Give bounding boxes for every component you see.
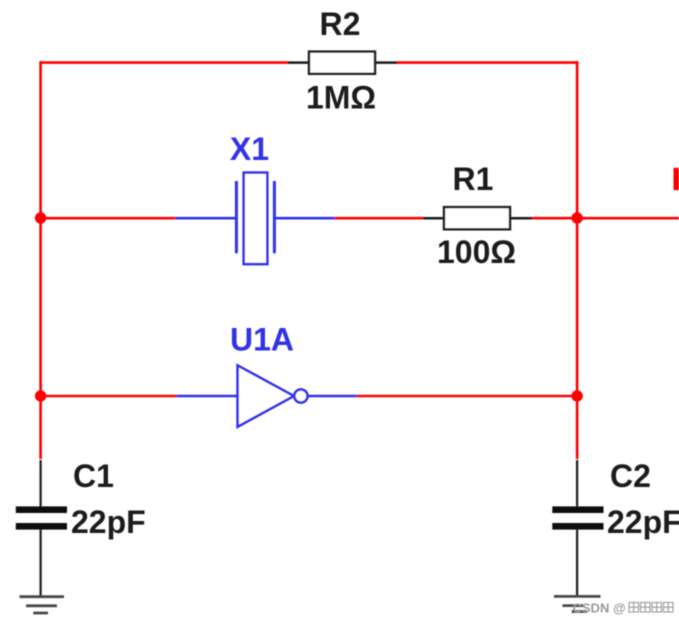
label X1 (230, 131, 269, 167)
wire top-right horizontal (R2 right to right rail) (396, 61, 578, 64)
resistor R2 (288, 52, 397, 74)
svg-text:R1: R1 (453, 161, 494, 197)
wire top-left horizontal (node to R2 left) (40, 61, 290, 64)
wire left vertical rail (39, 61, 42, 459)
svg-text:22pF: 22pF (71, 504, 146, 540)
label R1 (453, 161, 494, 197)
wire middle-left (left rail to X1) (41, 217, 177, 220)
crystal X1 (176, 173, 335, 265)
node junction right-middle (571, 212, 582, 223)
svg-text:R2: R2 (320, 6, 361, 42)
svg-text:CSDN @: CSDN @ (573, 601, 626, 616)
wire middle-right (R1 to right edge, output net) (531, 217, 679, 220)
watermark CSDN (573, 601, 674, 616)
ground (left) (20, 597, 65, 613)
wire middle (X1 to R1) (334, 217, 425, 220)
svg-text:100Ω: 100Ω (437, 234, 516, 270)
wire lower-right (U1A output to right rail) (356, 395, 579, 398)
svg-text:C1: C1 (73, 458, 114, 494)
wire lower-left (left rail to U1A input) (41, 395, 177, 398)
value 22pF (C1) (71, 504, 146, 540)
label C1 (73, 458, 114, 494)
value 100Ω (437, 234, 516, 270)
wire right vertical rail (576, 61, 579, 459)
value 22pF (C2) (607, 504, 679, 540)
inverter U1A (NOT gate) (177, 365, 357, 426)
node junction left-lower (35, 390, 46, 401)
value 1MΩ (306, 80, 376, 116)
svg-text:C2: C2 (610, 458, 651, 494)
capacitor C1 (16, 460, 67, 596)
svg-text:22pF: 22pF (607, 504, 679, 540)
svg-text:U1A: U1A (230, 322, 294, 358)
label R2 (320, 6, 361, 42)
resistor R1 (423, 207, 532, 229)
net label fragment (red, clipped at right edge) (674, 168, 679, 190)
label C2 (610, 458, 651, 494)
ground (right) (554, 596, 601, 611)
svg-text:X1: X1 (230, 131, 269, 167)
node junction left-middle (35, 212, 46, 223)
node junction right-lower (571, 390, 582, 401)
svg-text:1MΩ: 1MΩ (306, 80, 376, 116)
label U1A (230, 322, 294, 358)
capacitor C2 (552, 460, 603, 596)
